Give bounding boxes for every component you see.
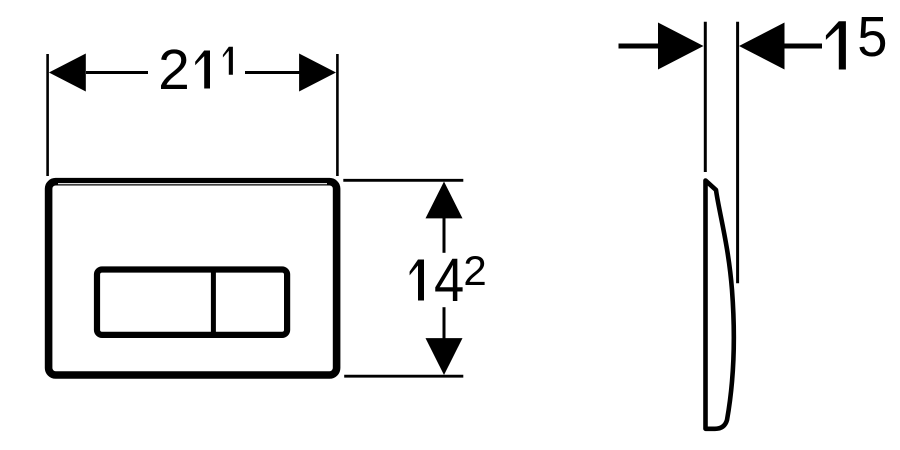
extension line bottom of height dim bbox=[344, 375, 463, 378]
dimension line thickness right segment bbox=[784, 44, 822, 49]
height value 14 bbox=[410, 260, 424, 301]
extension line right of width dim bbox=[336, 54, 339, 176]
arrowhead down of height dim bbox=[426, 338, 463, 375]
svg-text:4: 4 bbox=[434, 247, 464, 315]
dimension line thickness left segment bbox=[619, 44, 659, 49]
width superscript 1 bbox=[223, 47, 233, 75]
arrowhead pointing left of thickness dim bbox=[739, 23, 785, 70]
dimension line width right segment bbox=[245, 71, 300, 74]
svg-text:5: 5 bbox=[857, 5, 887, 68]
button divider bbox=[211, 268, 216, 337]
extension line left of thickness dim bbox=[704, 22, 707, 172]
arrowhead pointing right of thickness dim bbox=[658, 23, 704, 70]
svg-text:2: 2 bbox=[463, 247, 486, 294]
plate outer outline bbox=[49, 182, 337, 375]
extension line right of thickness dim bbox=[736, 22, 739, 284]
extension line top of height dim bbox=[343, 179, 463, 182]
svg-text:2: 2 bbox=[158, 38, 190, 102]
side profile of plate bbox=[706, 181, 734, 429]
arrowhead left of width dim bbox=[49, 54, 86, 92]
thickness value 1 bbox=[826, 21, 846, 69]
dimension line width left segment bbox=[86, 71, 148, 74]
arrowhead right of width dim bbox=[299, 54, 336, 92]
dimension line height bottom segment bbox=[443, 307, 446, 338]
dimension line height top segment bbox=[443, 218, 446, 253]
button frame bbox=[97, 270, 287, 335]
arrowhead up of height dim bbox=[426, 182, 463, 219]
plate top bevel highlight bbox=[58, 183, 327, 185]
extension line left of width dim bbox=[46, 54, 49, 176]
